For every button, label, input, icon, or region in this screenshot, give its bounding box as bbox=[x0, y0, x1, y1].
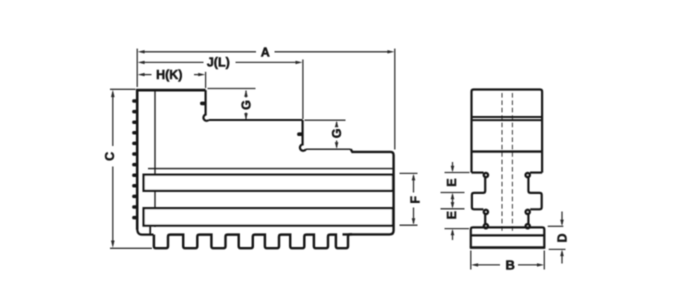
svg-text:B: B bbox=[506, 257, 515, 272]
svg-text:G: G bbox=[330, 129, 344, 139]
svg-text:C: C bbox=[103, 152, 117, 161]
svg-text:A: A bbox=[261, 46, 270, 60]
svg-text:G: G bbox=[239, 100, 253, 110]
svg-text:J(L): J(L) bbox=[207, 55, 230, 69]
svg-text:H(K): H(K) bbox=[156, 68, 182, 82]
svg-text:D: D bbox=[555, 233, 569, 242]
svg-text:E: E bbox=[445, 178, 459, 186]
svg-text:E: E bbox=[445, 211, 459, 219]
svg-text:F: F bbox=[409, 196, 423, 204]
